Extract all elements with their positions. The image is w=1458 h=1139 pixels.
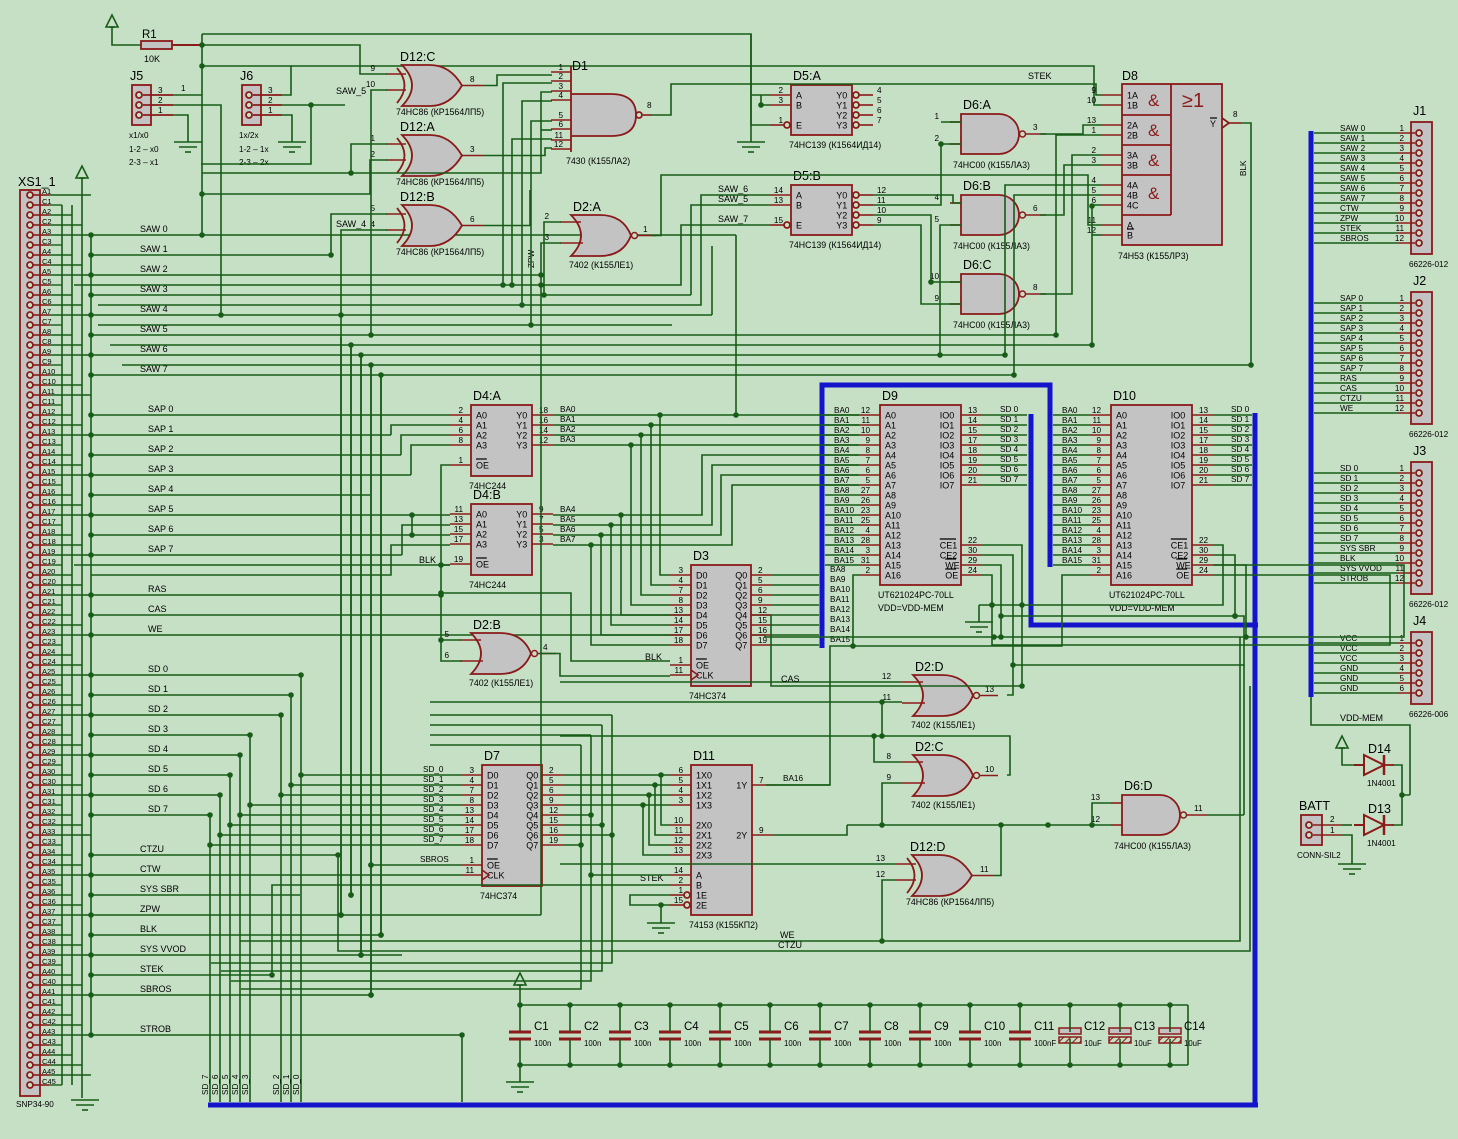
svg-text:SYS SBR: SYS SBR <box>140 884 180 894</box>
wire BA0 wire <box>553 412 859 418</box>
svg-text:A2: A2 <box>885 431 896 441</box>
wire BATT.2 to D13 <box>1342 824 1352 826</box>
wire D8 4A wire <box>1002 185 1101 358</box>
svg-text:Q0: Q0 <box>526 771 538 781</box>
svg-text:13: 13 <box>1199 406 1209 415</box>
svg-text:2: 2 <box>1096 566 1101 575</box>
svg-text:D7: D7 <box>696 641 708 651</box>
svg-text:11: 11 <box>980 865 989 874</box>
svg-text:BA10: BA10 <box>834 506 854 515</box>
svg-text:A10: A10 <box>885 511 901 521</box>
svg-text:SD 0: SD 0 <box>148 664 168 674</box>
wires D10 IO bus <box>1213 415 1252 485</box>
wire D2D h y665 <box>1013 665 1244 815</box>
wire J6.1 gnd <box>282 115 292 142</box>
svg-text:11: 11 <box>862 416 871 425</box>
wire D1 in5 wire <box>528 121 552 328</box>
wire SYS_VVOD row <box>88 944 402 958</box>
svg-text:BA9: BA9 <box>1062 496 1078 505</box>
svg-text:1: 1 <box>1091 126 1096 135</box>
svg-text:29: 29 <box>968 556 978 565</box>
svg-text:IO2: IO2 <box>1171 431 1186 441</box>
svg-text:SD_4: SD_4 <box>231 1074 240 1095</box>
svg-text:12: 12 <box>877 186 887 195</box>
svg-text:GND: GND <box>1340 674 1358 683</box>
wire D8 B tie <box>1092 234 1101 236</box>
svg-text:Q2: Q2 <box>526 791 538 801</box>
svg-text:A14: A14 <box>1116 551 1132 561</box>
svg-text:3: 3 <box>158 86 163 95</box>
svg-text:BA3: BA3 <box>560 435 576 444</box>
bus main right vertical <box>1309 131 1314 697</box>
svg-text:D8: D8 <box>1122 69 1138 83</box>
svg-text:4: 4 <box>678 786 683 795</box>
svg-text:IO5: IO5 <box>940 461 955 471</box>
power arrow top <box>106 15 118 27</box>
svg-text:100n: 100n <box>734 1039 751 1048</box>
svg-text:A8: A8 <box>885 491 896 501</box>
wire J6.2 down <box>201 105 311 164</box>
svg-text:3: 3 <box>1399 484 1404 493</box>
svg-text:STEK: STEK <box>1028 71 1052 81</box>
svg-text:Q1: Q1 <box>735 581 747 591</box>
wire col x361 <box>358 352 364 958</box>
svg-text:20: 20 <box>968 466 978 475</box>
svg-text:13: 13 <box>674 606 684 615</box>
svg-text:100n: 100n <box>934 1039 951 1048</box>
svg-text:R1: R1 <box>142 29 157 41</box>
svg-text:8: 8 <box>1033 283 1038 292</box>
svg-text:6: 6 <box>1399 514 1404 523</box>
svg-text:SBROS: SBROS <box>420 855 449 864</box>
svg-text:SAW_5: SAW_5 <box>336 86 366 96</box>
svg-text:A1: A1 <box>476 421 487 431</box>
svg-text:12: 12 <box>549 806 559 815</box>
svg-text:A1: A1 <box>885 421 896 431</box>
capacitor C7 <box>809 1002 851 1068</box>
wire BLK row <box>88 924 381 938</box>
svg-text:D5:B: D5:B <box>793 169 821 183</box>
svg-text:6: 6 <box>558 120 563 129</box>
svg-text:5: 5 <box>678 776 683 785</box>
svg-text:9: 9 <box>1399 374 1404 383</box>
svg-text:A2: A2 <box>476 431 487 441</box>
svg-text:1: 1 <box>1399 124 1404 133</box>
wire D9 CE1 row <box>979 545 1223 608</box>
svg-text:2: 2 <box>778 86 783 95</box>
svg-text:A16: A16 <box>885 571 901 581</box>
labels BA0-3 <box>560 405 576 444</box>
svg-text:IO1: IO1 <box>940 421 955 431</box>
svg-text:SD 3: SD 3 <box>148 724 168 734</box>
svg-text:Y3: Y3 <box>836 121 847 131</box>
svg-text:2X2: 2X2 <box>696 841 712 851</box>
svg-text:CE1: CE1 <box>1171 541 1189 551</box>
svg-text:D9: D9 <box>882 389 898 403</box>
svg-text:100n: 100n <box>634 1039 651 1048</box>
wire D5B Y3 to D6C.9 <box>873 225 961 304</box>
svg-text:A9: A9 <box>885 501 896 511</box>
wire CTZU row <box>88 844 338 858</box>
wire SD_5 row <box>88 764 230 778</box>
wire D8 2B wire <box>1053 135 1101 338</box>
latch D3 <box>670 549 772 701</box>
svg-text:SD_4: SD_4 <box>423 805 444 814</box>
svg-text:100n: 100n <box>884 1039 901 1048</box>
svg-text:2: 2 <box>1399 304 1404 313</box>
svg-text:2: 2 <box>158 96 163 105</box>
svg-text:14: 14 <box>774 186 784 195</box>
wire Q2 to 2X2 <box>649 795 670 845</box>
wire SYS_SBR drop <box>348 345 354 898</box>
wire SAP_3 row <box>88 464 411 478</box>
nand gate D6:D <box>1091 779 1207 851</box>
svg-text:7: 7 <box>678 586 683 595</box>
svg-text:C12: C12 <box>1084 1021 1105 1033</box>
nand gate D6:A <box>934 98 1046 170</box>
wire SAP_4 row <box>88 484 370 498</box>
svg-text:5: 5 <box>444 630 449 639</box>
svg-text:SAP 0: SAP 0 <box>1340 294 1364 303</box>
svg-text:15: 15 <box>758 616 768 625</box>
wire WE row y941 <box>240 637 1240 941</box>
svg-text:SD 5: SD 5 <box>148 764 168 774</box>
svg-text:1: 1 <box>558 63 563 72</box>
svg-text:BA14: BA14 <box>1062 546 1082 555</box>
wire D9 CE2 net <box>982 555 1016 695</box>
svg-text:SD 6: SD 6 <box>1340 524 1359 533</box>
svg-text:2: 2 <box>1399 644 1404 653</box>
svg-text:Y3: Y3 <box>516 441 527 451</box>
svg-text:A16: A16 <box>1116 571 1132 581</box>
svg-text:16: 16 <box>549 826 559 835</box>
svg-text:7402 (К155ЛЕ1): 7402 (К155ЛЕ1) <box>469 678 533 688</box>
wire D5A wiring <box>751 34 770 125</box>
svg-text:6: 6 <box>1399 684 1404 693</box>
svg-text:A5: A5 <box>1116 461 1127 471</box>
wire power to R1 <box>112 27 141 45</box>
wire SAW_1 row <box>88 244 331 258</box>
svg-text:SD 5: SD 5 <box>1000 455 1019 464</box>
wire SD_6 row <box>88 784 220 798</box>
svg-text:C4: C4 <box>684 1021 699 1033</box>
svg-text:19: 19 <box>1199 456 1209 465</box>
svg-text:9: 9 <box>759 826 764 835</box>
svg-text:14: 14 <box>1199 416 1209 425</box>
svg-text:BA4: BA4 <box>834 446 850 455</box>
svg-text:Q6: Q6 <box>735 631 747 641</box>
wire SD_2 row <box>88 704 281 718</box>
wire SAP_6 row <box>88 524 450 538</box>
nand gate D6:C <box>930 258 1046 330</box>
svg-text:D3: D3 <box>696 601 708 611</box>
ground D11 <box>647 923 675 933</box>
wire D7 Q0 to 1X0 <box>563 772 670 778</box>
svg-text:CTW: CTW <box>1340 204 1359 213</box>
wire SD3 drop <box>247 732 253 1102</box>
wire D12D in13 <box>560 863 896 865</box>
svg-text:A0: A0 <box>476 411 487 421</box>
svg-text:1: 1 <box>458 456 463 465</box>
svg-text:2X3: 2X3 <box>696 851 712 861</box>
svg-text:2: 2 <box>1399 134 1404 143</box>
svg-text:B: B <box>696 881 702 891</box>
svg-text:BA11: BA11 <box>834 516 854 525</box>
svg-text:SAW 4: SAW 4 <box>1340 164 1366 173</box>
svg-text:21: 21 <box>968 476 978 485</box>
wire WE row <box>88 624 765 638</box>
wire SAW_3 row <box>88 284 691 298</box>
svg-text:BA10: BA10 <box>1062 506 1082 515</box>
svg-text:SD_1: SD_1 <box>282 1074 291 1095</box>
svg-text:BA9: BA9 <box>830 575 846 584</box>
svg-text:74HC00 (К155ЛА3): 74HC00 (К155ЛА3) <box>953 160 1030 170</box>
wire SYS_VVOD drop <box>358 355 364 958</box>
wire STEK riser <box>269 885 670 978</box>
wire SAW_2 row <box>88 264 541 278</box>
svg-text:11: 11 <box>1396 394 1405 403</box>
svg-text:B: B <box>1127 231 1133 241</box>
svg-text:B: B <box>796 201 802 211</box>
svg-text:1A: 1A <box>1127 91 1138 101</box>
svg-text:17: 17 <box>465 826 475 835</box>
wire SD_4 row <box>88 744 240 758</box>
svg-text:C14: C14 <box>1184 1021 1206 1033</box>
svg-text:VCC: VCC <box>1340 634 1357 643</box>
wire SAP_7 row <box>88 544 402 558</box>
wire SD7 drop <box>207 812 213 1102</box>
wire SD_7 row <box>88 804 210 818</box>
svg-text:6: 6 <box>470 215 475 224</box>
wire D11 E gnd <box>630 895 670 905</box>
svg-text:16: 16 <box>758 626 768 635</box>
wire STROB drop <box>459 1032 465 1102</box>
svg-text:4: 4 <box>558 91 563 100</box>
wire D12C out to D1 <box>483 75 552 86</box>
svg-text:1N4001: 1N4001 <box>1367 839 1396 848</box>
wire SAP3 jog <box>411 445 450 475</box>
svg-text:Y2: Y2 <box>516 431 527 441</box>
svg-text:1X0: 1X0 <box>696 771 712 781</box>
svg-text:66226-012: 66226-012 <box>1409 430 1449 439</box>
svg-text:1: 1 <box>778 116 783 125</box>
xor gate D12:A <box>370 120 484 187</box>
svg-text:17: 17 <box>1199 436 1209 445</box>
svg-text:SD_0: SD_0 <box>423 765 444 774</box>
wire Q0 to 2X0 <box>661 775 670 825</box>
wire BA5-D3.D5 <box>611 525 670 625</box>
svg-text:SAW 6: SAW 6 <box>1340 184 1366 193</box>
svg-text:WE: WE <box>780 930 795 940</box>
svg-text:SAW_6: SAW_6 <box>718 184 748 194</box>
wire SAW4 dangle riser <box>711 246 713 315</box>
wire BA16 net <box>766 575 1090 785</box>
wire CAS row <box>88 604 771 618</box>
svg-text:3: 3 <box>558 82 563 91</box>
svg-text:3B: 3B <box>1127 161 1138 171</box>
wire D11 E gnd2 <box>658 902 664 923</box>
svg-text:30: 30 <box>968 546 978 555</box>
svg-text:6: 6 <box>865 466 870 475</box>
wire SAW2 riser ZPW D2A.3 <box>538 243 561 915</box>
wire SD_1 row <box>88 684 291 698</box>
svg-text:SD 7: SD 7 <box>1000 475 1019 484</box>
svg-text:12: 12 <box>554 140 564 149</box>
svg-text:D3: D3 <box>487 801 499 811</box>
wire CTZU row long <box>335 686 1250 951</box>
svg-text:13: 13 <box>774 196 784 205</box>
svg-text:A: A <box>696 871 702 881</box>
svg-text:D10: D10 <box>1113 389 1136 403</box>
wire SAW_6 row <box>88 344 1005 358</box>
svg-text:Q5: Q5 <box>526 821 538 831</box>
svg-text:74HC139 (К1564ИД14): 74HC139 (К1564ИД14) <box>789 140 881 150</box>
svg-text:D4: D4 <box>696 611 708 621</box>
svg-text:74HC00 (К155ЛА3): 74HC00 (К155ЛА3) <box>953 320 1030 330</box>
svg-text:SD 7: SD 7 <box>1231 475 1250 484</box>
wire D10 WE drop <box>1213 565 1246 637</box>
svg-text:7: 7 <box>865 456 870 465</box>
svg-text:Y0: Y0 <box>836 91 847 101</box>
svg-text:A7: A7 <box>1116 481 1127 491</box>
svg-text:SAP 5: SAP 5 <box>1340 344 1364 353</box>
wire D7 Q2 to 1X2 <box>563 792 670 798</box>
svg-text:Y1: Y1 <box>516 520 527 530</box>
svg-text:C3: C3 <box>634 1021 649 1033</box>
wires D9 IO bus <box>982 415 1027 485</box>
ground J5 <box>174 142 202 152</box>
svg-text:4: 4 <box>877 86 882 95</box>
svg-text:8: 8 <box>470 75 475 84</box>
svg-text:IO3: IO3 <box>1171 441 1186 451</box>
ground D9 <box>965 622 993 632</box>
wire BLK to D3.OE <box>441 593 670 661</box>
svg-text:100n: 100n <box>534 1039 551 1048</box>
svg-text:1: 1 <box>181 84 186 93</box>
wire BA3 wire <box>553 442 859 448</box>
wires BA8-15 to bus <box>772 575 819 645</box>
svg-text:SD_6: SD_6 <box>423 825 444 834</box>
svg-text:SD 3: SD 3 <box>1340 494 1359 503</box>
svg-text:12: 12 <box>758 606 768 615</box>
xor gate D12:D <box>876 840 994 907</box>
svg-text:3: 3 <box>1399 654 1404 663</box>
svg-text:6: 6 <box>549 786 554 795</box>
svg-text:SD 2: SD 2 <box>148 704 168 714</box>
svg-text:VDD-MEM: VDD-MEM <box>1340 713 1383 723</box>
wire BA2-D3.D2 <box>641 435 670 595</box>
svg-text:BA5: BA5 <box>560 515 576 524</box>
svg-text:3: 3 <box>470 145 475 154</box>
svg-text:10: 10 <box>1395 554 1405 563</box>
svg-text:74HC374: 74HC374 <box>689 691 726 701</box>
svg-text:D2:A: D2:A <box>573 200 601 214</box>
bus D10 left vertical <box>1031 414 1258 625</box>
svg-text:CONN-SIL2: CONN-SIL2 <box>1297 851 1341 860</box>
power arrow D14 <box>1336 736 1348 748</box>
node R1 junction2 <box>199 63 205 69</box>
svg-text:3: 3 <box>1399 144 1404 153</box>
svg-text:SD 7: SD 7 <box>148 804 168 814</box>
svg-text:4: 4 <box>865 526 870 535</box>
svg-text:2: 2 <box>1330 815 1335 824</box>
wire D2C out <box>560 736 1010 775</box>
svg-text:1: 1 <box>678 886 683 895</box>
wire D2D in11 tie <box>879 702 885 739</box>
wire D2D in11 <box>430 699 902 705</box>
wire OE1 net BLK <box>438 465 462 661</box>
svg-text:BA0: BA0 <box>834 406 850 415</box>
wire col x62 <box>61 205 63 1085</box>
svg-text:A3: A3 <box>476 540 487 550</box>
svg-text:UT621024PC-70LL: UT621024PC-70LL <box>1109 590 1185 600</box>
svg-text:&: & <box>1148 121 1160 140</box>
wire D5A B <box>761 95 770 105</box>
svg-text:6: 6 <box>678 766 683 775</box>
wire y66 long <box>202 66 291 95</box>
svg-text:9: 9 <box>886 773 891 782</box>
svg-text:J6: J6 <box>240 69 253 83</box>
svg-text:8: 8 <box>1399 534 1404 543</box>
svg-text:13: 13 <box>1091 793 1101 802</box>
svg-text:74HC86 (КР1564ЛП5): 74HC86 (КР1564ЛП5) <box>906 897 994 907</box>
svg-text:27: 27 <box>1092 486 1102 495</box>
svg-text:4: 4 <box>1091 176 1096 185</box>
wire SBROS row <box>88 984 371 998</box>
wire col x602 <box>221 725 602 971</box>
svg-text:IO4: IO4 <box>940 451 955 461</box>
svg-text:12: 12 <box>861 406 871 415</box>
wire D2C in9 <box>879 783 902 828</box>
svg-text:BA8: BA8 <box>1062 486 1078 495</box>
svg-text:100nF: 100nF <box>1034 1039 1056 1048</box>
wire col x72 <box>71 205 73 1085</box>
svg-text:9: 9 <box>758 596 763 605</box>
svg-text:A9: A9 <box>1116 501 1127 511</box>
svg-text:D6:B: D6:B <box>963 179 991 193</box>
svg-text:2: 2 <box>558 72 563 81</box>
svg-text:SD 0: SD 0 <box>1000 405 1019 414</box>
svg-text:BLK: BLK <box>1239 160 1248 176</box>
svg-text:BA11: BA11 <box>830 595 850 604</box>
wire SD4 drop <box>237 752 243 1102</box>
svg-text:31: 31 <box>1092 556 1102 565</box>
svg-text:BA1: BA1 <box>1062 416 1078 425</box>
svg-text:OE: OE <box>945 571 958 581</box>
svg-text:SNP34-90: SNP34-90 <box>16 1100 54 1109</box>
svg-text:D2:C: D2:C <box>915 740 943 754</box>
decoder D5:A <box>770 69 882 150</box>
wire D2C in8 <box>871 733 902 762</box>
wire BA6 wire <box>553 475 859 538</box>
svg-text:IO0: IO0 <box>1171 411 1186 421</box>
capacitor C13 <box>1109 1002 1155 1068</box>
svg-text:5: 5 <box>1399 504 1404 513</box>
svg-text:7: 7 <box>759 776 764 785</box>
ground BATT <box>1338 864 1366 874</box>
wire WE long y637 <box>765 565 1404 640</box>
wire BA0-D3.D0 <box>660 415 670 575</box>
svg-text:10uF: 10uF <box>1084 1039 1102 1048</box>
svg-text:10: 10 <box>674 816 684 825</box>
svg-text:5: 5 <box>1399 334 1404 343</box>
svg-text:A13: A13 <box>1116 541 1132 551</box>
svg-text:D3: D3 <box>693 549 709 563</box>
wire D1 out to STEK rail <box>652 84 1101 115</box>
svg-text:D4:A: D4:A <box>473 389 501 403</box>
svg-text:SD 1: SD 1 <box>1231 415 1250 424</box>
svg-text:1E: 1E <box>696 891 707 901</box>
